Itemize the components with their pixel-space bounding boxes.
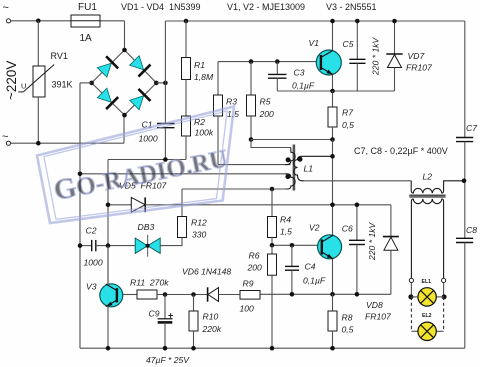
wire lamp left lead bbox=[410, 283, 412, 297]
svg-text:FU1: FU1 bbox=[78, 2, 97, 13]
node V1 collector junction bbox=[330, 19, 335, 24]
svg-text:220 * 1kV: 220 * 1kV bbox=[367, 221, 377, 261]
resistor R3 bbox=[214, 62, 240, 165]
wire V2 base bus bbox=[272, 244, 318, 246]
node L1 W1 polarity dot bbox=[286, 157, 291, 162]
capacitor C6 bbox=[342, 205, 365, 294]
wire bridge bottom drop bbox=[123, 115, 125, 143]
wire V2 emitter bbox=[332, 259, 334, 294]
wire emitter bus y294 bbox=[260, 293, 391, 295]
resistor R1 bbox=[182, 21, 214, 116]
inductor L2 bbox=[409, 172, 465, 279]
wire bottom input bbox=[11, 142, 124, 144]
diode VD7 bbox=[386, 21, 433, 91]
svg-text:R7: R7 bbox=[342, 108, 354, 118]
node C4 bottom junction bbox=[290, 292, 295, 297]
wire VD5 to V2 collector bus bbox=[145, 204, 391, 206]
svg-text:EL2: EL2 bbox=[422, 313, 432, 319]
svg-text:R6: R6 bbox=[249, 251, 260, 261]
svg-text:100k: 100k bbox=[195, 128, 214, 138]
resistor R6 bbox=[247, 245, 277, 348]
svg-text:1,8M: 1,8M bbox=[194, 72, 214, 82]
wire bridge left to minus rail bbox=[80, 82, 92, 84]
svg-text:1000: 1000 bbox=[139, 134, 158, 144]
node C6 top junction bbox=[355, 203, 360, 208]
wire V2 collector bbox=[332, 205, 334, 235]
svg-text:R1: R1 bbox=[194, 60, 205, 70]
node C2 right junction bbox=[106, 243, 111, 248]
svg-text:VD7: VD7 bbox=[408, 51, 426, 61]
lamp EL1 bbox=[411, 279, 443, 306]
wire R12 riser bbox=[181, 189, 183, 217]
wire dashed right bbox=[443, 297, 445, 331]
node VD7 top junction bbox=[392, 19, 397, 24]
svg-text:C5: C5 bbox=[343, 39, 354, 49]
transformer L1 winding W2 bbox=[285, 174, 295, 189]
wire base bus y294 bbox=[157, 294, 208, 296]
wire emitter bus y91 bbox=[277, 90, 394, 92]
wire dashed left bbox=[410, 297, 412, 331]
wire V1 collector bbox=[332, 21, 334, 51]
svg-text:DB3: DB3 bbox=[138, 222, 155, 232]
node R5 top junction bbox=[249, 59, 254, 64]
svg-text:200: 200 bbox=[259, 109, 275, 119]
svg-text:C3: C3 bbox=[294, 68, 305, 78]
diode VD3 bridge bottom-left bbox=[96, 87, 118, 109]
svg-text:100: 100 bbox=[240, 304, 255, 314]
svg-text:C6: C6 bbox=[342, 224, 353, 234]
node rail V3 emitter bbox=[106, 346, 111, 351]
node L1 secondary polarity dot bbox=[298, 157, 303, 162]
wire top input bbox=[11, 20, 125, 22]
svg-text:330: 330 bbox=[192, 230, 207, 240]
node C6 bottom junction bbox=[355, 292, 360, 297]
diode VD1 bridge top-left bbox=[96, 56, 118, 78]
wire L1 W2 top to minus rail bbox=[80, 173, 286, 175]
svg-text:1000: 1000 bbox=[84, 258, 103, 268]
resistor R9 bbox=[240, 279, 261, 314]
transistor V3 bbox=[86, 282, 123, 307]
node rail R6 bbox=[270, 346, 275, 351]
transistor V2 bbox=[309, 223, 342, 260]
node lamp left junction bbox=[408, 294, 413, 299]
svg-text:0,5: 0,5 bbox=[342, 120, 354, 130]
node V2 collector junction bbox=[330, 203, 335, 208]
svg-text:R9: R9 bbox=[243, 279, 254, 289]
svg-text:L2: L2 bbox=[423, 172, 433, 182]
transformer L1 secondary bbox=[294, 156, 333, 181]
resistor R10 bbox=[189, 295, 222, 349]
node rail R10 bbox=[191, 346, 196, 351]
svg-text:V1: V1 bbox=[309, 38, 320, 48]
svg-text:1,5: 1,5 bbox=[280, 227, 292, 237]
node R10 top junction bbox=[191, 292, 196, 297]
node V2 emitter junction bbox=[330, 292, 335, 297]
wire V3 emitter bbox=[107, 306, 109, 348]
svg-text:R12: R12 bbox=[191, 218, 207, 228]
svg-text:C7: C7 bbox=[466, 123, 478, 133]
svg-text:R11 270k: R11 270k bbox=[130, 278, 169, 288]
capacitor C5 bbox=[343, 21, 366, 91]
node C2 left junction bbox=[78, 243, 83, 248]
svg-text:FR107: FR107 bbox=[365, 312, 392, 322]
node R7 bottom junction bbox=[330, 137, 335, 142]
capacitor C1 bbox=[139, 83, 175, 160]
diode VD2 bridge top-right bbox=[128, 54, 150, 76]
svg-text:47µF * 25V: 47µF * 25V bbox=[146, 355, 190, 365]
diode VD6 bbox=[182, 267, 240, 302]
svg-text:C9: C9 bbox=[149, 309, 160, 319]
node R1 top junction bbox=[184, 19, 189, 24]
svg-text:U: U bbox=[21, 81, 26, 90]
resistor R7 bbox=[328, 91, 354, 140]
svg-text:~: ~ bbox=[3, 2, 9, 14]
capacitor C4 bbox=[285, 245, 326, 294]
capacitor C3 bbox=[268, 62, 315, 91]
svg-text:EL1: EL1 bbox=[422, 279, 432, 285]
wire bridge top drop bbox=[124, 21, 126, 50]
transistor V1 bbox=[309, 38, 342, 75]
svg-text:V3: V3 bbox=[86, 282, 97, 292]
svg-text:VD8: VD8 bbox=[366, 300, 383, 310]
node V1 emitter junction bbox=[330, 89, 335, 94]
svg-text:~220V: ~220V bbox=[4, 61, 19, 100]
diac DB3 bbox=[135, 222, 160, 257]
node L2 rail junction bbox=[462, 179, 467, 184]
transformer L1 winding W1 bbox=[285, 148, 295, 165]
wire plus bus riser bbox=[164, 21, 166, 83]
svg-text:C4: C4 bbox=[305, 262, 316, 272]
node bridge right corner bbox=[154, 81, 159, 86]
diode VD4 bridge bottom-right bbox=[128, 89, 150, 111]
wire R3 to L1 winding1 bottom bbox=[218, 164, 291, 166]
svg-text:VD1 - VD4 1N5399: VD1 - VD4 1N5399 bbox=[121, 2, 201, 12]
node junction RV1 top bbox=[36, 19, 41, 24]
svg-text:1A: 1A bbox=[80, 33, 93, 44]
svg-text:R5: R5 bbox=[260, 97, 271, 107]
resistor R2 bbox=[182, 116, 214, 160]
svg-text:+: + bbox=[168, 311, 173, 321]
node L1 secondary top junction bbox=[330, 154, 335, 159]
wire L1 W2 bottom bus bbox=[182, 188, 286, 190]
node R4 bottom junction bbox=[270, 243, 275, 248]
wire plus bus top bbox=[165, 20, 464, 22]
svg-text:0,1µF: 0,1µF bbox=[292, 81, 315, 91]
svg-text:V2: V2 bbox=[309, 223, 320, 233]
wire x332 rail mid bbox=[332, 140, 334, 205]
wire V3 base lead bbox=[123, 294, 137, 296]
varistor RV1 bbox=[18, 21, 72, 143]
svg-text:0,5: 0,5 bbox=[342, 325, 354, 335]
wire lamp right lead bbox=[443, 283, 445, 297]
node C4 top junction bbox=[290, 243, 295, 248]
wire C1 R2 bottom bbox=[108, 159, 186, 161]
wire V1 emitter bbox=[332, 75, 334, 91]
svg-text:R8: R8 bbox=[342, 313, 353, 323]
node AC terminal 2 bbox=[2, 131, 11, 145]
svg-text:0,1µF: 0,1µF bbox=[303, 276, 326, 286]
node C9 top junction bbox=[163, 292, 168, 297]
diode VD5 bbox=[108, 181, 168, 213]
svg-text:200: 200 bbox=[247, 263, 263, 273]
svg-text:C7, C8 - 0,22µF * 400V: C7, C8 - 0,22µF * 400V bbox=[354, 146, 448, 156]
node bridge top corner bbox=[122, 48, 127, 53]
svg-text:V3 - 2N5551: V3 - 2N5551 bbox=[326, 2, 377, 12]
lamp EL2 bbox=[411, 313, 443, 340]
transformer L1 core bbox=[293, 145, 296, 191]
node AC terminal 1 bbox=[3, 2, 11, 23]
fuse FU1 bbox=[71, 2, 100, 44]
svg-text:RV1: RV1 bbox=[51, 51, 68, 61]
svg-text:VD6 1N4148: VD6 1N4148 bbox=[182, 267, 231, 277]
resistor R4 bbox=[268, 189, 293, 245]
wire minus rail left bbox=[79, 83, 81, 348]
wire right rail middle bbox=[464, 142, 466, 239]
wire L1 secondary to L2 bbox=[303, 180, 412, 182]
svg-text:C8: C8 bbox=[466, 225, 477, 235]
wire V1 base bus bbox=[218, 61, 316, 63]
node lamp terminal right bbox=[442, 278, 446, 282]
wire bottom rail bbox=[80, 347, 465, 349]
node C1 top junction bbox=[163, 81, 168, 86]
svg-text:R10: R10 bbox=[203, 312, 219, 322]
wire right rail bottom bbox=[464, 243, 466, 349]
resistor R5 bbox=[247, 62, 275, 140]
capacitor C7 bbox=[456, 123, 478, 142]
svg-text:391K: 391K bbox=[52, 80, 73, 90]
wire bridge plus output bbox=[156, 82, 165, 84]
wire x108 rail bbox=[107, 160, 109, 285]
wire bridge diamond bbox=[92, 50, 157, 115]
resistor R8 bbox=[328, 294, 354, 348]
capacitor C9 bbox=[149, 295, 174, 349]
node minus rail W2 junction bbox=[78, 172, 83, 177]
resistor R12 bbox=[160, 217, 207, 246]
svg-text:R4: R4 bbox=[280, 215, 291, 225]
node C1 bottom junction bbox=[163, 157, 168, 162]
node rail C9 bbox=[163, 346, 168, 351]
node C5 top junction bbox=[355, 19, 360, 24]
svg-text:220k: 220k bbox=[202, 324, 222, 334]
wire R5 R7 link bbox=[251, 139, 333, 141]
svg-text:C2: C2 bbox=[86, 226, 97, 236]
capacitor C8 bbox=[456, 225, 477, 243]
wire to L1 winding1 top bbox=[251, 140, 291, 148]
wire right rail top bbox=[464, 21, 466, 138]
svg-text:220 * 1kV: 220 * 1kV bbox=[371, 36, 381, 76]
diode VD8 bbox=[365, 205, 399, 322]
node lamp right junction bbox=[442, 294, 447, 299]
resistor R11 bbox=[130, 278, 169, 300]
svg-text:V1, V2 - MJE13009: V1, V2 - MJE13009 bbox=[227, 2, 305, 12]
node junction RV1 bottom bbox=[36, 141, 41, 146]
node rail R8 bbox=[330, 346, 335, 351]
node R4 top junction bbox=[270, 187, 275, 192]
node R5 bottom junction bbox=[249, 137, 254, 142]
svg-text:FR107: FR107 bbox=[406, 63, 433, 73]
node C3 top junction bbox=[275, 59, 280, 64]
capacitor C2 bbox=[80, 226, 135, 268]
node L1 W2 polarity dot bbox=[285, 174, 290, 179]
watermark stamp bbox=[37, 107, 234, 224]
node bridge bottom corner bbox=[122, 113, 127, 118]
wire V3 collector bbox=[107, 246, 109, 285]
svg-text:L1: L1 bbox=[304, 164, 314, 174]
node lamp terminal left bbox=[409, 278, 413, 282]
node bridge left corner bbox=[89, 81, 94, 86]
svg-text:R3: R3 bbox=[226, 97, 237, 107]
node VD5 anode junction bbox=[106, 203, 111, 208]
